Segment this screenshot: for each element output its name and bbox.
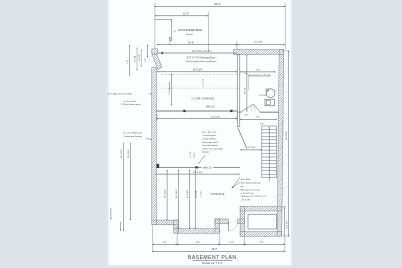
svg-text:4'-0 3/4": 4'-0 3/4"	[196, 190, 198, 198]
svg-text:30" x 30" x 12": 30" x 30" x 12"	[202, 132, 216, 134]
svg-text:(Verify height before installa: (Verify height before installation)	[186, 60, 217, 63]
svg-text:w/ (5) #5 Reb,: w/ (5) #5 Reb,	[202, 139, 216, 141]
stair treads	[262, 126, 277, 178]
svg-text:6" Concrete &: 6" Concrete &	[124, 100, 137, 103]
svg-text:CANTILEVERED BEAM: CANTILEVERED BEAM	[178, 29, 202, 32]
svg-text:8'-0" High Concrete Wall: 8'-0" High Concrete Wall	[108, 93, 132, 96]
interior wall below mech	[237, 112, 239, 126]
svg-text:3'-0 3/4": 3'-0 3/4"	[287, 220, 289, 228]
svg-text:7'-0": 7'-0"	[127, 60, 129, 64]
bottom-left stub dims	[110, 208, 112, 220]
svg-text:= 10 1/4" (+/-): = 10 1/4" (+/-)	[241, 193, 255, 195]
furnace	[265, 99, 274, 106]
small left dim lines	[136, 48, 138, 71]
interior vertical dims	[166, 170, 168, 220]
dim 16'-0 3/4" garage door	[157, 71, 237, 73]
svg-text:3'-0 3/4": 3'-0 3/4"	[135, 55, 137, 62]
svg-text:3'-0": 3'-0"	[260, 124, 264, 126]
svg-text:BASEMENT PLAN: BASEMENT PLAN	[188, 255, 237, 261]
svg-text:12'-0": 12'-0"	[183, 13, 189, 16]
svg-text:9'-0" X 7'-0" Overhead Door: 9'-0" X 7'-0" Overhead Door	[187, 57, 216, 60]
svg-text:8'-0 3/4": 8'-0 3/4"	[139, 54, 141, 61]
long dim vertical 38'	[122, 143, 124, 231]
svg-text:26'-0": 26'-0"	[212, 249, 218, 251]
dim row overall 26'-0"	[153, 250, 285, 252]
svg-text:11'-0 3/4": 11'-0 3/4"	[253, 42, 262, 44]
svg-text:5'-4": 5'-4"	[163, 242, 168, 244]
porch wall bottom	[240, 232, 281, 237]
garage door header	[158, 52, 237, 54]
svg-text:12'-10": 12'-10"	[245, 87, 247, 94]
svg-text:5'-4": 5'-4"	[229, 242, 234, 244]
stair ext line	[282, 119, 284, 150]
dim vertical 3'-4"	[171, 19, 173, 41]
door jamb tick	[161, 52, 163, 54]
svg-text:W8 x 15: W8 x 15	[206, 107, 215, 109]
porch inner pad	[248, 214, 276, 229]
right overall vertical dim	[287, 51, 289, 237]
svg-text:2'-8": 2'-8"	[256, 116, 260, 118]
wall bottom A	[152, 220, 179, 225]
stair side edges	[262, 126, 277, 178]
extension lines bottom	[153, 225, 285, 252]
dim offset line	[155, 18, 172, 20]
svg-text:(above): (above)	[186, 34, 193, 36]
svg-text:2'-0": 2'-0"	[145, 58, 147, 62]
porch entry door swing	[229, 222, 238, 231]
beam W8x15 upper	[156, 110, 237, 112]
dim garage width	[157, 118, 237, 120]
svg-text:Average riser tread: Average riser tread	[241, 188, 260, 191]
paper sheet	[108, 0, 292, 266]
svg-text:with 2" Dia. Schedule: with 2" Dia. Schedule	[202, 147, 224, 150]
tick marks	[169, 38, 171, 42]
svg-text:for:: for:	[241, 185, 245, 188]
double door leaves	[241, 104, 260, 112]
svg-text:16'-0 3/4": 16'-0 3/4"	[193, 70, 203, 72]
dim 26'-0" top	[155, 5, 285, 7]
dim 16'-0 3/4" lower	[155, 173, 239, 175]
long dim vertical 36'	[129, 143, 131, 221]
porch entry door leaf	[228, 222, 230, 231]
svg-text:2'-10 3/4": 2'-10 3/4"	[258, 95, 266, 97]
pad note leader	[199, 155, 205, 164]
porch wall left	[240, 207, 245, 237]
wall step left	[174, 220, 179, 233]
wall right	[277, 50, 284, 237]
cantilever leader	[173, 31, 176, 33]
dim vertical chamfer	[146, 45, 148, 58]
svg-text:7'-0" Minimum: 7'-0" Minimum	[169, 82, 171, 95]
dim row segments	[153, 243, 178, 245]
beam W8x15 lower	[156, 166, 240, 168]
wall chamfer (angled garage corner)	[152, 54, 162, 70]
dim vertical 7'-0" left	[128, 45, 130, 75]
svg-text:40 pipe.: 40 pipe.	[202, 152, 210, 154]
door swing arcs	[251, 104, 255, 111]
svg-text:16'-0": 16'-0"	[188, 42, 194, 44]
porch right vertical dim	[284, 207, 286, 236]
wall top-left corner stub	[152, 49, 158, 54]
beam pocket in left wall	[157, 164, 160, 168]
svg-text:STORAGE: STORAGE	[211, 192, 225, 196]
dim 8'-0" mech	[240, 71, 276, 73]
svg-text:T.O.S.: T.O.S.	[194, 152, 196, 158]
dim 4'-0 3/4"	[240, 149, 262, 151]
extension lines top	[155, 3, 285, 52]
under-stair diagonal wall	[238, 128, 247, 149]
dim 12'-10" vertical	[246, 55, 248, 112]
svg-text:8'-0": 8'-0"	[256, 70, 261, 72]
svg-text:36'-0 3/4": 36'-0 3/4"	[128, 149, 130, 158]
column on beam lower	[195, 166, 197, 168]
svg-text:8" Brick above grade: 8" Brick above grade	[121, 103, 141, 106]
dashed lines of floor above in garage	[161, 75, 240, 88]
mech dim ext line	[248, 76, 250, 91]
svg-text:11'-0 3/4": 11'-0 3/4"	[176, 189, 178, 198]
svg-text:= 9'-7 1/8": = 9'-7 1/8"	[241, 200, 251, 202]
svg-text:3'-0": 3'-0"	[245, 114, 249, 116]
svg-text:Stair Note:: Stair Note:	[241, 178, 252, 181]
svg-text:Concrete pad: Concrete pad	[202, 134, 216, 137]
svg-text:12'-0 3/4": 12'-0 3/4"	[165, 189, 167, 198]
svg-text:Continuous Footing: Continuous Footing	[124, 135, 143, 138]
wall C1	[215, 219, 228, 224]
wall C2	[238, 219, 245, 224]
svg-text:SCALE: 1/4" = 1'-0": SCALE: 1/4" = 1'-0"	[202, 262, 223, 265]
svg-text:38'-0 3/4": 38'-0 3/4"	[121, 149, 123, 158]
svg-text:14'-0 3/4": 14'-0 3/4"	[187, 189, 189, 198]
stair direction line with up arrow	[268, 127, 270, 181]
wall bottom B	[174, 229, 220, 234]
dim 12'-0"	[155, 15, 209, 17]
svg-text:8'-4": 8'-4"	[196, 242, 201, 244]
svg-text:(2) 1 3/4 x 14 L.V.L.: (2) 1 3/4 x 14 L.V.L.	[192, 51, 212, 53]
svg-text:± 1 1/2": ± 1 1/2"	[200, 191, 202, 198]
svg-text:both ways and 3": both ways and 3"	[202, 141, 219, 144]
svg-text:2 CAR GARAGE: 2 CAR GARAGE	[191, 97, 214, 101]
svg-text:± 1'-1 1/2": ± 1'-1 1/2"	[203, 78, 205, 87]
mech room left wall	[237, 55, 240, 113]
porch wall top	[240, 207, 281, 211]
column on beam upper 2	[230, 110, 232, 112]
dim stair width	[240, 118, 277, 120]
stair note leader	[232, 177, 240, 188]
svg-text:Stair Spacing design: Stair Spacing design	[241, 182, 262, 185]
svg-text:from the bottom,: from the bottom,	[202, 144, 218, 147]
svg-text:16'-0 3/4": 16'-0 3/4"	[193, 172, 202, 174]
water heater	[266, 89, 275, 98]
svg-text:6'-4": 6'-4"	[260, 241, 265, 243]
wall top-right	[234, 50, 284, 55]
svg-text:W8 x 15: W8 x 15	[203, 168, 212, 170]
svg-text:4'-0 3/4": 4'-0 3/4"	[247, 147, 255, 149]
svg-text:26'-0": 26'-0"	[214, 2, 221, 6]
svg-text:15 Risers @ 7 11/16" (+/-): 15 Risers @ 7 11/16" (+/-)	[241, 195, 267, 198]
column on beam upper 1	[183, 110, 185, 112]
svg-text:± 1 1/2": ± 1 1/2"	[190, 151, 192, 158]
dim row 16'-0" / 11'-0 3/4"	[157, 44, 237, 46]
svg-text:24" x 10" (Minimum): 24" x 10" (Minimum)	[123, 133, 142, 135]
dim 7'-0" min vertical in garage	[170, 74, 172, 106]
svg-text:MECHANICAL ROOM: MECHANICAL ROOM	[248, 75, 270, 78]
mech room bottom wall	[240, 111, 279, 113]
wall left	[152, 68, 157, 225]
svg-text:16'-0 3/4": 16'-0 3/4"	[211, 117, 220, 119]
wall step right	[215, 219, 220, 233]
svg-text:38'-0 3/4": 38'-0 3/4"	[286, 131, 288, 140]
